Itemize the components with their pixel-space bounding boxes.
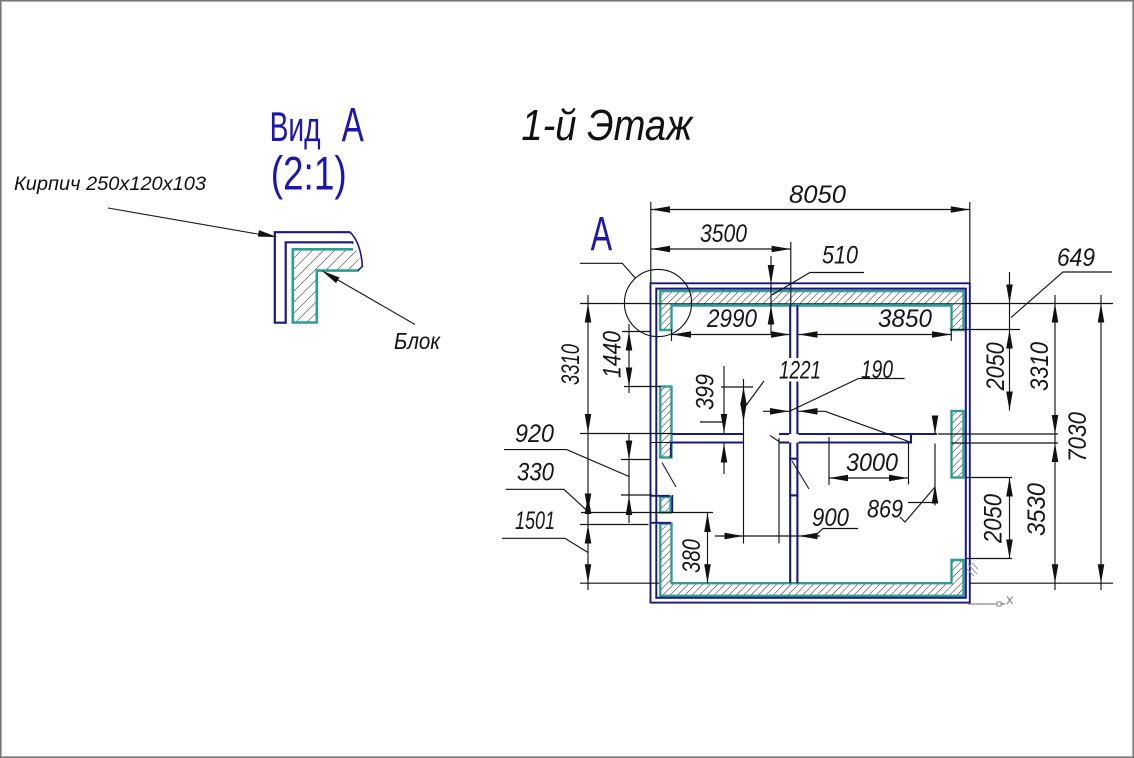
svg-text:А: А [591,208,613,261]
svg-text:1-й Этаж: 1-й Этаж [521,101,693,150]
svg-text:Вид: Вид [270,103,321,150]
svg-text:920: 920 [515,420,554,448]
svg-text:1501: 1501 [515,507,555,535]
svg-text:А: А [342,99,364,152]
svg-text:399: 399 [692,374,720,410]
svg-text:3500: 3500 [700,220,747,248]
svg-text:3850: 3850 [878,305,932,333]
svg-text:3000: 3000 [846,449,898,477]
svg-text:1221: 1221 [779,357,821,385]
svg-text:900: 900 [812,504,849,532]
svg-text:2050: 2050 [980,494,1008,544]
svg-text:1440: 1440 [599,331,627,378]
svg-text:3310: 3310 [1026,342,1054,391]
svg-text:7030: 7030 [1064,412,1092,462]
svg-text:510: 510 [822,241,858,269]
svg-text:2990: 2990 [706,305,757,333]
svg-text:Кирпич 250х120х103: Кирпич 250х120х103 [14,174,206,195]
svg-text:3310: 3310 [557,344,585,385]
svg-text:Блок: Блок [394,328,441,354]
svg-text:(2:1): (2:1) [271,147,347,200]
svg-text:869: 869 [867,496,903,524]
svg-text:330: 330 [517,459,554,487]
svg-text:649: 649 [1057,244,1095,272]
svg-text:8050: 8050 [789,181,846,209]
svg-text:2050: 2050 [982,342,1010,391]
svg-text:3530: 3530 [1023,483,1051,536]
svg-text:190: 190 [861,356,893,384]
svg-text:380: 380 [678,539,706,573]
